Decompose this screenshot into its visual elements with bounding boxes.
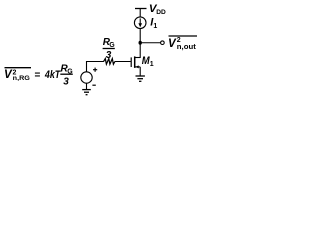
RG/3 label (above resistor) <box>103 37 116 61</box>
Vn,out label with overline <box>168 36 197 51</box>
svg-text:V: V <box>168 38 177 50</box>
- polarity <box>92 84 95 86</box>
VDD supply symbol <box>135 9 147 18</box>
current source I1 <box>134 17 146 29</box>
wire: source top corner to resistor <box>87 62 104 72</box>
wire: source bottom to ground <box>86 83 88 89</box>
wire: node to output terminal <box>140 42 160 44</box>
noise voltage source (circle) <box>81 72 92 83</box>
output terminal (open circle) <box>161 41 165 45</box>
svg-text:1: 1 <box>153 23 157 30</box>
ground (M1 source) <box>136 76 145 81</box>
ground (voltage source) <box>82 90 91 95</box>
svg-text:n,RG: n,RG <box>13 75 30 82</box>
I1 label <box>150 17 157 30</box>
gate wire: resistor to gate <box>115 61 131 63</box>
resistor RG/3 (zigzag) <box>104 59 115 65</box>
svg-text:3: 3 <box>106 50 112 61</box>
VDD label <box>149 3 166 16</box>
svg-text:n,out: n,out <box>177 42 197 51</box>
transistor M1 (NMOS) <box>131 56 140 76</box>
node junction dot <box>139 41 142 45</box>
svg-text:3: 3 <box>63 77 69 88</box>
wire: node down to drain <box>139 43 141 58</box>
equation: Vn,RG^2 = 4kT RG/3 <box>4 64 73 88</box>
svg-text:1: 1 <box>150 61 154 68</box>
wire: current source to drain node <box>139 29 141 44</box>
+ polarity <box>93 68 97 72</box>
svg-text:=: = <box>35 70 41 81</box>
M1 label <box>142 55 154 68</box>
svg-text:DD: DD <box>156 9 166 16</box>
svg-text:4kT: 4kT <box>44 69 61 81</box>
